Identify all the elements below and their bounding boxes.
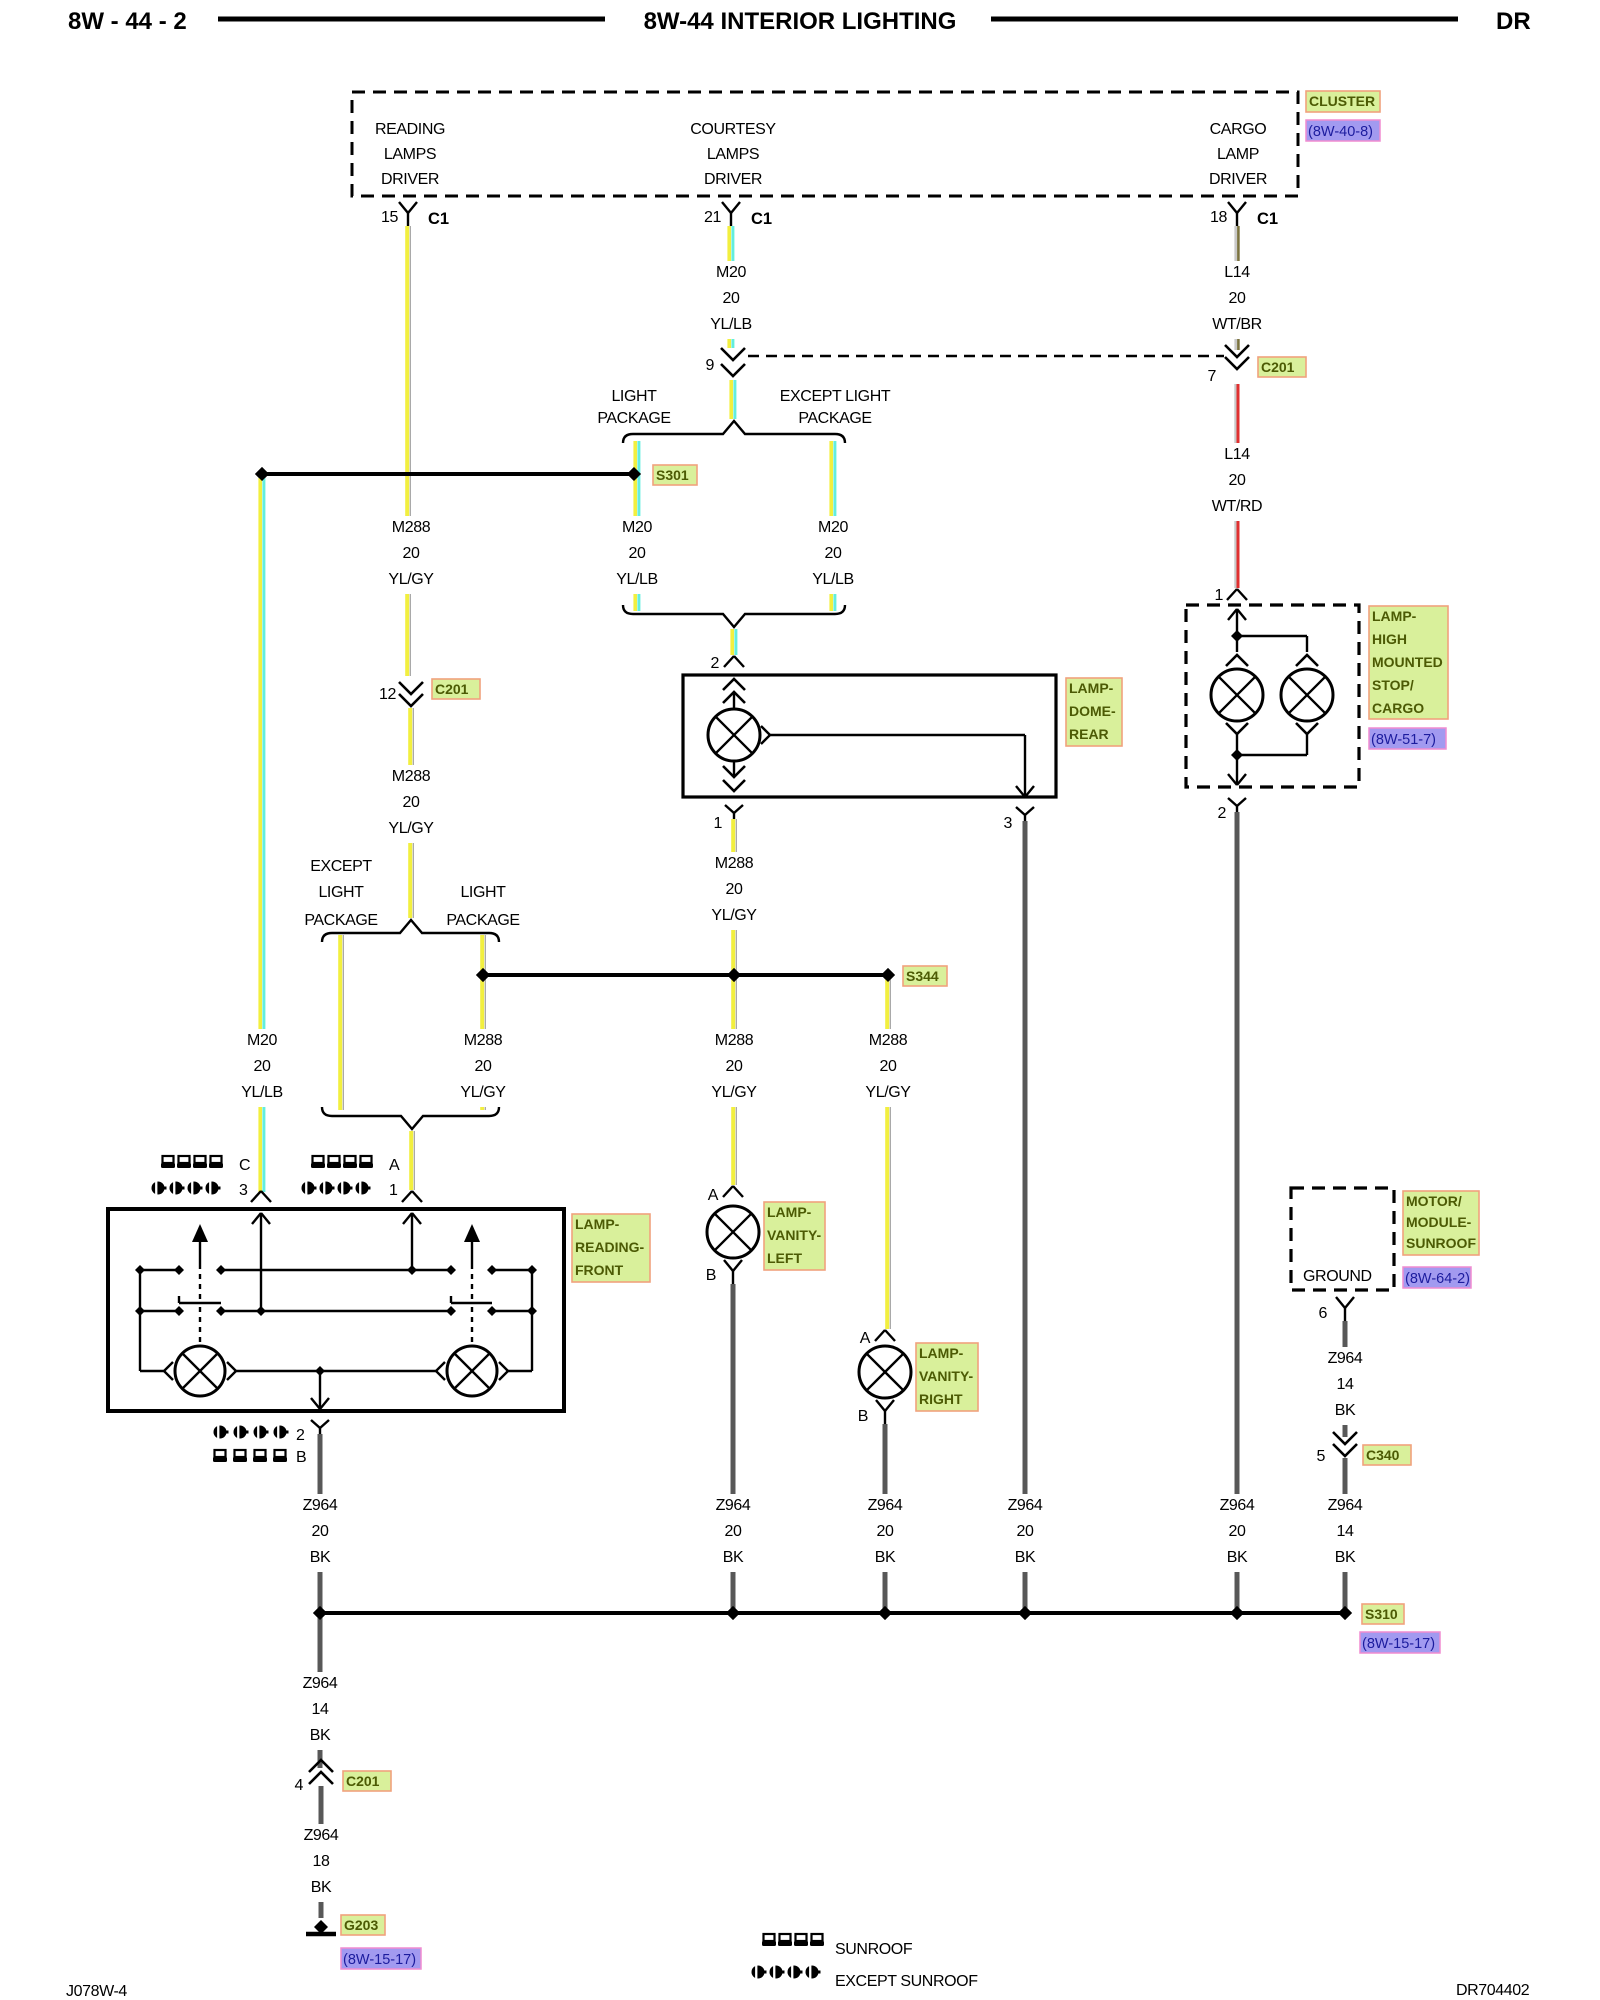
svg-text:WT/BR: WT/BR xyxy=(1212,316,1262,333)
wire label M288 20 YL/GY light package branch xyxy=(454,1029,512,1107)
svg-text:LAMP-: LAMP- xyxy=(919,1345,964,1361)
svg-text:VANITY-: VANITY- xyxy=(767,1227,822,1243)
label LAMP-READING-FRONT xyxy=(572,1214,650,1282)
svg-text:L14: L14 xyxy=(1224,446,1250,463)
page reference 8W-15-17 xyxy=(341,1948,421,1969)
dome lamp pin 3 connector xyxy=(1004,807,1035,832)
page reference 8W-64-2 xyxy=(1403,1267,1471,1288)
option label EXCEPT LIGHT PACKAGE xyxy=(780,388,891,427)
svg-text:SUNROOF: SUNROOF xyxy=(835,1941,913,1958)
reading lamp left bulb xyxy=(175,1346,225,1396)
sunroof module pin 6 connector xyxy=(1319,1297,1355,1322)
splice S344 diamond right xyxy=(881,968,895,982)
splice S310 junction diamonds xyxy=(313,1606,327,1620)
svg-text:(8W-51-7): (8W-51-7) xyxy=(1371,732,1436,748)
svg-text:20: 20 xyxy=(254,1058,271,1075)
splice S344 diamond center xyxy=(727,968,741,982)
svg-text:7: 7 xyxy=(1208,368,1217,385)
connector C340 pin 5 xyxy=(1317,1432,1358,1465)
lamp vanity right pin B xyxy=(858,1400,894,1425)
svg-text:2: 2 xyxy=(1218,805,1227,822)
wire M288 20 YL/GY below C201 xyxy=(408,708,412,918)
svg-text:1: 1 xyxy=(1215,587,1224,604)
svg-text:PACKAGE: PACKAGE xyxy=(446,912,519,929)
svg-text:20: 20 xyxy=(1229,1523,1246,1540)
cluster output COURTESY LAMPS DRIVER xyxy=(690,121,776,188)
wire L14 20 WT/RD to cargo lamp xyxy=(1234,384,1236,588)
svg-text:2: 2 xyxy=(296,1427,305,1444)
svg-text:EXCEPT SUNROOF: EXCEPT SUNROOF xyxy=(835,1973,978,1990)
legend sunroof icons xyxy=(762,1934,913,1958)
splice S344 overlay junctions xyxy=(476,968,490,982)
svg-text:20: 20 xyxy=(403,545,420,562)
svg-text:20: 20 xyxy=(312,1523,329,1540)
svg-text:C340: C340 xyxy=(1366,1447,1400,1463)
label S301 xyxy=(653,465,697,485)
svg-text:DR704402: DR704402 xyxy=(1456,1982,1530,1999)
svg-text:18: 18 xyxy=(1210,209,1227,226)
svg-text:20: 20 xyxy=(877,1523,894,1540)
wire label L14 20 WT/RD xyxy=(1208,443,1266,521)
svg-text:A: A xyxy=(860,1330,871,1347)
svg-text:LAMP-: LAMP- xyxy=(1372,608,1417,624)
wire M288 except light package branch xyxy=(338,935,342,1110)
ground G203 symbol xyxy=(314,1920,328,1934)
option label LIGHT PACKAGE xyxy=(446,884,519,929)
svg-text:A: A xyxy=(389,1157,400,1174)
svg-text:LEFT: LEFT xyxy=(767,1250,802,1266)
dome lamp bottom chevrons xyxy=(733,761,735,777)
wire Z964 14 BK from sunroof module xyxy=(1343,1321,1348,1437)
svg-text:A: A xyxy=(708,1187,719,1204)
svg-text:READING: READING xyxy=(375,121,445,138)
connector C201 pin 7 xyxy=(1208,345,1250,385)
svg-text:LAMP: LAMP xyxy=(1217,146,1259,163)
svg-text:C: C xyxy=(239,1157,250,1174)
svg-text:(8W-15-17): (8W-15-17) xyxy=(343,1952,416,1968)
cargo lamp internal output junction xyxy=(1231,749,1243,761)
wire label Z964 20 BK dome xyxy=(996,1494,1054,1572)
splice S301 overlay junction xyxy=(627,467,641,481)
cargo lamp internal branch junction xyxy=(1231,630,1243,642)
wire M288 20 YL/GY from C1 pin 15 xyxy=(405,226,409,676)
connector C1 pin 18 xyxy=(1210,202,1278,228)
dome lamp internal wire to pin 3 xyxy=(770,734,1025,736)
wire Z964 20 BK from reading lamp pin 2 xyxy=(318,1434,323,1609)
svg-text:DR: DR xyxy=(1496,8,1531,35)
label C201 xyxy=(432,679,480,699)
reading lamp left riser xyxy=(139,1270,141,1371)
svg-text:20: 20 xyxy=(1229,472,1246,489)
svg-text:LIGHT: LIGHT xyxy=(460,884,506,901)
wire label M288 20 YL/GY vanity right branch xyxy=(859,1029,917,1107)
cargo lamp internal input arrow xyxy=(1228,609,1237,620)
svg-text:M288: M288 xyxy=(464,1032,503,1049)
svg-text:BK: BK xyxy=(723,1549,744,1566)
lamp vanity left pin B xyxy=(706,1260,742,1284)
svg-text:4: 4 xyxy=(295,1777,304,1794)
wire Z964 20 BK from vanity right xyxy=(883,1424,888,1609)
svg-text:C1: C1 xyxy=(751,210,772,228)
svg-text:YL/GY: YL/GY xyxy=(460,1084,506,1101)
svg-text:MOUNTED: MOUNTED xyxy=(1372,654,1443,670)
wire label Z964 20 BK cargo xyxy=(1208,1494,1266,1572)
svg-text:YL/LB: YL/LB xyxy=(241,1084,283,1101)
wire label M20 20 YL/LB xyxy=(702,261,760,339)
wire Z964 20 BK from vanity left xyxy=(731,1284,736,1609)
svg-text:3: 3 xyxy=(239,1182,248,1199)
svg-text:YL/LB: YL/LB xyxy=(616,571,658,588)
wire M288 merged to reading lamp xyxy=(409,1131,413,1190)
reading lamp left bulb terminals xyxy=(140,1370,164,1372)
svg-text:LIGHT: LIGHT xyxy=(318,884,364,901)
wire label Z964 20 BK reading lamp xyxy=(291,1494,349,1572)
svg-text:DRIVER: DRIVER xyxy=(704,171,762,188)
svg-text:YL/GY: YL/GY xyxy=(388,571,434,588)
label C201 xyxy=(1258,357,1306,377)
lamp vanity right bulb xyxy=(859,1346,911,1398)
option split brace EXCEPT LIGHT PACKAGE / LIGHT PACKAGE xyxy=(322,920,499,942)
wire label Z964 18 BK xyxy=(292,1824,350,1902)
svg-text:Z964: Z964 xyxy=(716,1497,751,1514)
wire M20 except light package branch xyxy=(829,441,833,611)
svg-text:EXCEPT LIGHT: EXCEPT LIGHT xyxy=(780,388,891,405)
dome lamp internal output arrow xyxy=(1016,786,1025,797)
connector C201 pin 4 xyxy=(295,1760,334,1794)
svg-text:M288: M288 xyxy=(392,519,431,536)
wire label Z964 20 BK vanity right xyxy=(856,1494,914,1572)
svg-text:EXCEPT: EXCEPT xyxy=(310,858,372,875)
label LAMP-VANITY-LEFT xyxy=(764,1202,825,1270)
svg-text:M20: M20 xyxy=(247,1032,277,1049)
svg-text:BK: BK xyxy=(1335,1402,1356,1419)
wire label L14 20 WT/BR xyxy=(1208,261,1266,339)
wire M288 20 YL/GY to vanity right xyxy=(885,979,889,1329)
svg-text:8W-44 INTERIOR LIGHTING: 8W-44 INTERIOR LIGHTING xyxy=(644,8,957,35)
svg-text:B: B xyxy=(858,1408,868,1425)
wire M20 20 YL/LB from S301 to reading lamp xyxy=(258,478,262,1192)
svg-text:20: 20 xyxy=(726,881,743,898)
svg-text:LIGHT: LIGHT xyxy=(611,388,657,405)
wire M20 below connector 9 xyxy=(729,380,733,419)
svg-text:CARGO: CARGO xyxy=(1372,700,1424,716)
svg-text:Z964: Z964 xyxy=(868,1497,903,1514)
splice S344 line xyxy=(483,973,888,977)
except sunroof pin icons 1 xyxy=(302,1182,399,1200)
lamp vanity left pin A xyxy=(708,1186,743,1204)
splice S301 junction diamond right xyxy=(627,467,641,481)
sunroof pin icons C xyxy=(161,1156,250,1174)
cargo lamp pin 1 connector xyxy=(1215,587,1248,604)
cargo lamp right bulb input chevron xyxy=(1296,655,1318,666)
page reference 8W-15-17 xyxy=(1360,1632,1440,1653)
svg-text:9: 9 xyxy=(706,357,715,374)
svg-text:20: 20 xyxy=(723,290,740,307)
reading lamp right bulb xyxy=(447,1346,497,1396)
svg-text:BK: BK xyxy=(875,1549,896,1566)
splice S310 line xyxy=(320,1611,1345,1615)
svg-text:C201: C201 xyxy=(1261,359,1295,375)
page header rule right xyxy=(991,17,1458,22)
svg-text:READING-: READING- xyxy=(575,1239,645,1255)
sunroof pin icons B xyxy=(213,1449,306,1466)
svg-text:1: 1 xyxy=(389,1182,398,1199)
connector C201 dashed gang line xyxy=(748,355,1224,358)
svg-text:Z964: Z964 xyxy=(303,1675,338,1692)
svg-text:18: 18 xyxy=(313,1853,330,1870)
label S344 xyxy=(903,966,947,986)
svg-text:B: B xyxy=(706,1267,716,1284)
svg-text:BK: BK xyxy=(1335,1549,1356,1566)
wire M20 light package branch xyxy=(633,441,637,611)
wire M288 light package branch xyxy=(480,935,484,1110)
cargo lamp left bulb xyxy=(1211,669,1263,721)
dome lamp bulb xyxy=(708,709,760,761)
svg-text:S310: S310 xyxy=(1365,1606,1398,1622)
svg-text:14: 14 xyxy=(1337,1376,1354,1393)
svg-text:14: 14 xyxy=(312,1701,329,1718)
dome lamp internal input chevrons xyxy=(723,679,745,690)
cargo lamp internal output arrow xyxy=(1228,774,1237,785)
option label EXCEPT LIGHT PACKAGE xyxy=(304,858,377,929)
svg-text:LAMP-: LAMP- xyxy=(575,1216,620,1232)
svg-text:YL/GY: YL/GY xyxy=(388,820,434,837)
svg-text:M20: M20 xyxy=(818,519,848,536)
cargo lamp dashed box xyxy=(1186,605,1359,787)
svg-text:(8W-15-17): (8W-15-17) xyxy=(1362,1636,1435,1652)
connector C1 pin 15 xyxy=(381,202,449,228)
connector C1 pin 21 xyxy=(704,202,772,228)
dome lamp pin 2 connector xyxy=(711,655,745,672)
splice S301 line xyxy=(262,472,634,476)
svg-text:G203: G203 xyxy=(344,1917,378,1933)
svg-text:YL/GY: YL/GY xyxy=(865,1084,911,1101)
svg-text:PACKAGE: PACKAGE xyxy=(304,912,377,929)
svg-text:HIGH: HIGH xyxy=(1372,631,1407,647)
svg-text:M20: M20 xyxy=(716,264,746,281)
label MOTOR/MODULE-SUNROOF xyxy=(1403,1191,1479,1255)
wire label Z964 14 BK xyxy=(291,1672,349,1750)
svg-text:PACKAGE: PACKAGE xyxy=(597,410,670,427)
legend except sunroof icons xyxy=(752,1966,979,1991)
wire label M288 20 YL/GY below S344 xyxy=(705,1029,763,1107)
svg-text:20: 20 xyxy=(880,1058,897,1075)
svg-text:Z964: Z964 xyxy=(304,1827,339,1844)
svg-text:LAMP-: LAMP- xyxy=(767,1204,812,1220)
svg-text:21: 21 xyxy=(704,209,721,226)
svg-text:Z964: Z964 xyxy=(1008,1497,1043,1514)
wire L14 20 WT/BR from C1 pin 18 xyxy=(1234,226,1237,350)
cluster output CARGO LAMP DRIVER xyxy=(1209,121,1267,188)
reading lamp right bulb terminals xyxy=(320,1370,436,1372)
reading lamp internal input arrow pin 1 xyxy=(403,1213,412,1224)
reading lamp pin 2 connector xyxy=(311,1420,320,1428)
svg-text:YL/LB: YL/LB xyxy=(812,571,854,588)
lamp vanity right pin A xyxy=(860,1330,895,1347)
reading lamp left switch xyxy=(179,1224,221,1344)
svg-text:BK: BK xyxy=(310,1549,331,1566)
label LAMP-VANITY-RIGHT xyxy=(916,1343,978,1411)
wire M20 20 YL/LB from C1 pin 21 xyxy=(727,226,731,348)
svg-text:YL/GY: YL/GY xyxy=(711,1084,757,1101)
option split brace LIGHT PACKAGE / EXCEPT LIGHT PACKAGE xyxy=(623,421,845,443)
svg-text:20: 20 xyxy=(403,794,420,811)
cargo lamp right bulb xyxy=(1281,669,1333,721)
svg-text:DOME-: DOME- xyxy=(1069,703,1116,719)
lamp vanity left bulb xyxy=(707,1206,759,1258)
wire label M20 20 YL/LB xyxy=(233,1029,291,1107)
reading lamp pin 1 connector xyxy=(402,1191,412,1202)
svg-text:15: 15 xyxy=(381,209,398,226)
wire label M288 20 YL/GY xyxy=(382,765,440,843)
svg-text:5: 5 xyxy=(1317,1448,1326,1465)
svg-text:BK: BK xyxy=(311,1879,332,1896)
svg-text:1: 1 xyxy=(714,815,723,832)
svg-text:VANITY-: VANITY- xyxy=(919,1368,974,1384)
svg-text:14: 14 xyxy=(1337,1523,1354,1540)
wire Z964 14 BK below C340 xyxy=(1343,1458,1348,1609)
svg-text:LAMPS: LAMPS xyxy=(707,146,759,163)
svg-text:RIGHT: RIGHT xyxy=(919,1391,963,1407)
svg-text:20: 20 xyxy=(825,545,842,562)
wire label M20 20 YL/LB except light package xyxy=(804,516,862,594)
svg-text:12: 12 xyxy=(379,686,396,703)
svg-text:20: 20 xyxy=(1229,290,1246,307)
svg-text:3: 3 xyxy=(1004,815,1013,832)
option merge brace to lamp reading front xyxy=(322,1107,499,1129)
svg-text:8W - 44 - 2: 8W - 44 - 2 xyxy=(68,8,187,35)
svg-text:DRIVER: DRIVER xyxy=(1209,171,1267,188)
svg-text:GROUND: GROUND xyxy=(1303,1268,1372,1285)
cluster output READING LAMPS DRIVER xyxy=(375,121,445,188)
svg-text:CLUSTER: CLUSTER xyxy=(1309,93,1375,109)
motor/module-sunroof dashed box xyxy=(1291,1188,1394,1290)
label CLUSTER xyxy=(1306,91,1380,112)
wire Z964 20 BK from dome pin 3 xyxy=(1023,821,1028,1609)
svg-text:FRONT: FRONT xyxy=(575,1262,624,1278)
wire Z964 14 BK below S310 xyxy=(318,1617,323,1768)
wire label M20 20 YL/LB light package xyxy=(608,516,666,594)
svg-text:DRIVER: DRIVER xyxy=(381,171,439,188)
svg-text:YL/GY: YL/GY xyxy=(711,907,757,924)
svg-text:MOTOR/: MOTOR/ xyxy=(1406,1193,1462,1209)
splice S310 overlay junctions xyxy=(313,1606,327,1620)
connector C201 pin 9 xyxy=(706,348,746,376)
svg-text:BK: BK xyxy=(1227,1549,1248,1566)
dome lamp right terminal xyxy=(761,726,770,735)
svg-text:J078W-4: J078W-4 xyxy=(66,1983,127,2000)
svg-text:S301: S301 xyxy=(656,467,689,483)
svg-text:STOP/: STOP/ xyxy=(1372,677,1414,693)
svg-text:Z964: Z964 xyxy=(303,1497,338,1514)
except sunroof pin icons 2 xyxy=(214,1426,306,1445)
svg-text:20: 20 xyxy=(1017,1523,1034,1540)
wire M20 merged to dome lamp pin 2 xyxy=(730,629,734,655)
svg-text:M20: M20 xyxy=(622,519,652,536)
svg-text:SUNROOF: SUNROOF xyxy=(1406,1235,1476,1251)
reading lamp internal input arrow pin 3 xyxy=(252,1213,261,1224)
dome lamp pin 1 connector xyxy=(714,805,744,832)
label S310 xyxy=(1362,1604,1404,1624)
page reference 8W-51-7 xyxy=(1369,728,1446,749)
lamp reading front box xyxy=(108,1209,564,1411)
reading lamp internal output arrow xyxy=(311,1398,320,1409)
svg-text:COURTESY: COURTESY xyxy=(690,121,776,138)
option merge brace to dome lamp xyxy=(623,605,845,627)
svg-text:WT/RD: WT/RD xyxy=(1212,498,1262,515)
svg-text:20: 20 xyxy=(726,1058,743,1075)
svg-text:PACKAGE: PACKAGE xyxy=(798,410,871,427)
svg-text:M288: M288 xyxy=(869,1032,908,1049)
splice S301 junction diamond left xyxy=(255,467,269,481)
reading lamp right riser xyxy=(531,1270,533,1371)
svg-text:(8W-40-8): (8W-40-8) xyxy=(1308,124,1373,140)
svg-text:20: 20 xyxy=(629,545,646,562)
wire Z964 18 BK to ground xyxy=(319,1786,324,1918)
lamp dome rear box xyxy=(683,675,1056,797)
wire M288 20 YL/GY from dome pin 1 xyxy=(731,819,735,1185)
option label LIGHT PACKAGE xyxy=(597,388,670,427)
svg-text:S344: S344 xyxy=(906,968,939,984)
sunroof pin icons A xyxy=(311,1156,400,1174)
connector C201 pin 12 xyxy=(379,682,423,706)
svg-text:C1: C1 xyxy=(1257,210,1278,228)
cargo lamp right bulb output chevron xyxy=(1296,723,1318,734)
svg-text:M288: M288 xyxy=(715,855,754,872)
svg-text:YL/LB: YL/LB xyxy=(710,316,752,333)
cargo lamp left bulb input chevron xyxy=(1226,655,1248,666)
svg-text:Z964: Z964 xyxy=(1220,1497,1255,1514)
svg-text:LAMPS: LAMPS xyxy=(384,146,436,163)
svg-text:C201: C201 xyxy=(346,1773,380,1789)
label C340 xyxy=(1363,1445,1411,1465)
reading lamp pin 3 connector xyxy=(251,1191,261,1202)
svg-text:CARGO: CARGO xyxy=(1210,121,1267,138)
svg-text:6: 6 xyxy=(1319,1305,1328,1322)
page reference 8W-40-8 xyxy=(1306,120,1380,141)
page header rule left xyxy=(218,17,605,22)
wire Z964 20 BK from cargo pin 2 xyxy=(1235,812,1240,1609)
svg-text:Z964: Z964 xyxy=(1328,1350,1363,1367)
wire label M288 20 YL/GY xyxy=(382,516,440,594)
svg-text:REAR: REAR xyxy=(1069,726,1109,742)
wire label Z964 14 BK xyxy=(1316,1347,1374,1425)
svg-text:20: 20 xyxy=(475,1058,492,1075)
svg-text:2: 2 xyxy=(711,655,720,672)
wire label Z964 20 BK vanity left xyxy=(704,1494,762,1572)
cargo lamp internal branch wire xyxy=(1237,635,1307,637)
label C201 xyxy=(343,1771,391,1791)
cargo lamp pin 2 connector xyxy=(1218,798,1247,822)
wire label M288 20 YL/GY xyxy=(705,852,763,930)
except sunroof pin icons 3 xyxy=(152,1182,249,1200)
svg-text:MODULE-: MODULE- xyxy=(1406,1214,1472,1230)
reading lamp bus row 1 xyxy=(140,1269,179,1271)
reading lamp output junction xyxy=(315,1366,325,1376)
cluster dashed box xyxy=(352,92,1298,196)
svg-text:C201: C201 xyxy=(435,681,469,697)
reading lamp right switch xyxy=(451,1224,492,1344)
svg-text:M288: M288 xyxy=(392,768,431,785)
svg-text:M288: M288 xyxy=(715,1032,754,1049)
splice S344 diamond left xyxy=(476,968,490,982)
wire label Z964 14 BK xyxy=(1316,1494,1374,1572)
svg-text:BK: BK xyxy=(310,1727,331,1744)
svg-text:L14: L14 xyxy=(1224,264,1250,281)
svg-text:BK: BK xyxy=(1015,1549,1036,1566)
svg-text:C1: C1 xyxy=(428,210,449,228)
cargo lamp left bulb output chevron xyxy=(1226,723,1248,734)
